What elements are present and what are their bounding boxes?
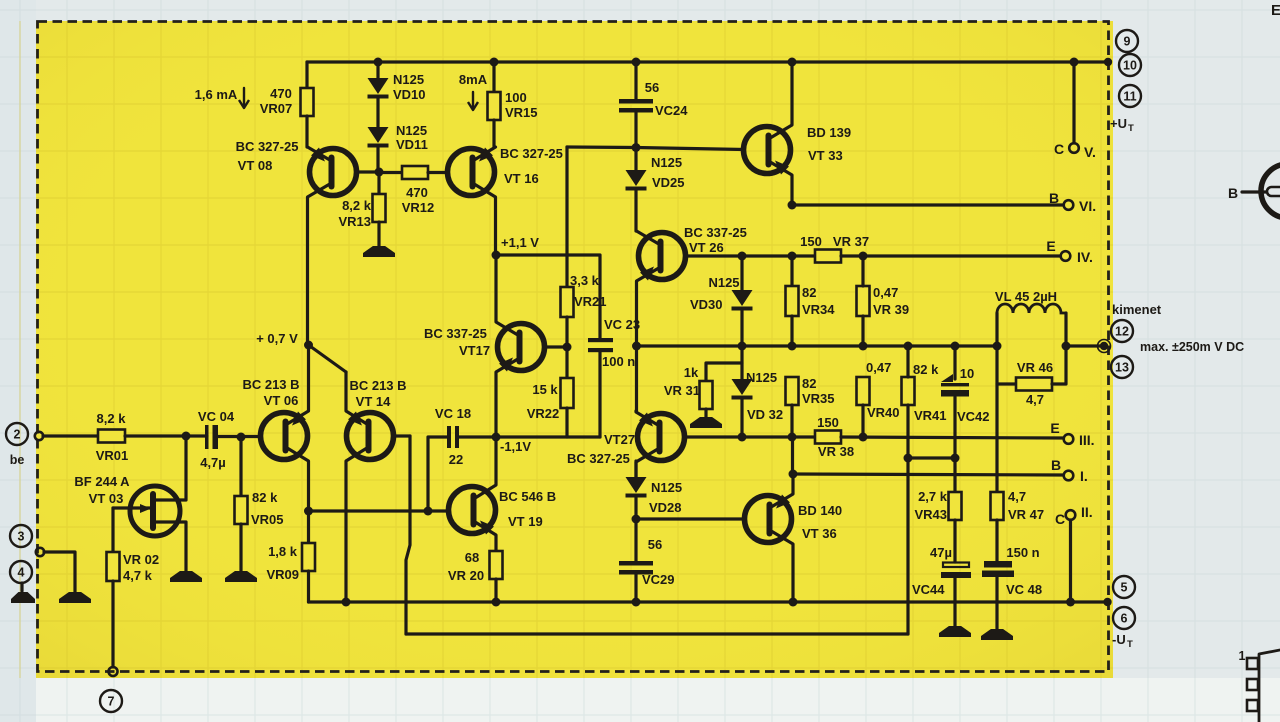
node VD28 / VT36 base — [632, 515, 641, 524]
terminal number 5 — [1113, 576, 1135, 598]
wire VR47 to VC48 — [995, 520, 998, 561]
resistor VR37 — [815, 250, 841, 263]
resistor VR21 — [561, 287, 574, 317]
svg-text:10: 10 — [960, 366, 974, 381]
svg-text:150: 150 — [800, 234, 822, 249]
dashed border of highlighted block — [38, 22, 1109, 672]
node +1,1V — [492, 251, 501, 260]
svg-text:3: 3 — [18, 530, 25, 544]
capacitor VC42 — [941, 383, 969, 386]
wire VR15 to VT16 emitter — [492, 120, 495, 147]
wire input to VR01 — [43, 434, 98, 437]
svg-text:VC 18: VC 18 — [435, 406, 471, 421]
svg-text:4,7µ: 4,7µ — [200, 455, 226, 470]
capacitor VC44 electrolytic — [943, 563, 969, 568]
wire VR35 bottom to E III line — [790, 405, 793, 437]
wire VD30 top — [740, 256, 743, 290]
svg-text:VR 39: VR 39 — [873, 302, 909, 317]
node mid rail / VR34 VR35 — [788, 342, 797, 351]
wire VR31 to ground — [704, 409, 707, 417]
wire rail to VC24 — [634, 62, 637, 99]
svg-text:BC 213 B: BC 213 B — [242, 377, 299, 392]
node bottom rail / VR20 — [492, 598, 501, 607]
capacitor VC29 — [619, 561, 653, 566]
wire feedback VT14 base down — [406, 436, 410, 634]
resistor VR41 — [902, 377, 915, 405]
wire VC04 node to VR05 — [239, 437, 242, 496]
svg-text:1k: 1k — [684, 365, 699, 380]
resistor VR09 — [302, 543, 315, 571]
wire bottom rail — [309, 600, 1108, 603]
wire VC48 to ground — [995, 577, 998, 629]
svg-text:VC 04: VC 04 — [198, 409, 235, 424]
wire base node to VR13 — [377, 172, 380, 194]
terminal circle C V. — [1069, 143, 1079, 153]
wire VR41 top — [906, 346, 909, 377]
node VC18 drop on VT19 base line — [424, 507, 433, 516]
svg-text:VI.: VI. — [1079, 198, 1096, 214]
ground below VC44 — [939, 626, 971, 637]
wire VC42 top — [953, 346, 956, 379]
svg-text:E: E — [1046, 238, 1055, 254]
wire VR01 to VC04 — [125, 434, 207, 437]
svg-text:VR 20: VR 20 — [448, 568, 484, 583]
svg-text:15 k: 15 k — [532, 382, 558, 397]
node bottom rail / VC29 — [632, 598, 641, 607]
node VD25 top / VT33 base line — [632, 143, 641, 152]
wire feedback bottom run — [406, 632, 908, 635]
svg-text:22: 22 — [449, 452, 463, 467]
wire VR22 top — [565, 347, 568, 378]
svg-text:BD 140: BD 140 — [798, 503, 842, 518]
wire base node to VR12 — [379, 171, 402, 174]
svg-text:B: B — [1049, 190, 1059, 206]
transistor VT03 BF 244 A JFET — [130, 486, 180, 536]
wire rail to VR15 — [492, 62, 495, 92]
wire VT27 collector to VD28 — [634, 461, 637, 477]
resistor VR35 — [786, 377, 799, 405]
wire VC44 to ground — [953, 578, 956, 626]
leads VT26 — [637, 231, 661, 245]
svg-text:VR07: VR07 — [260, 101, 293, 116]
node output right — [1062, 342, 1071, 351]
node VT36 emitter / B I. line — [789, 470, 798, 479]
svg-text:VR 31: VR 31 — [664, 383, 700, 398]
svg-text:VD28: VD28 — [649, 500, 682, 515]
svg-text:56: 56 — [645, 80, 659, 95]
terminal number 6 — [1113, 607, 1135, 629]
terminal number 13 — [1111, 356, 1133, 378]
svg-text:C: C — [1055, 511, 1065, 527]
wire +1,1V to VC23 — [496, 255, 600, 338]
svg-text:B: B — [1051, 457, 1061, 473]
svg-text:3,3 k: 3,3 k — [570, 273, 600, 288]
resistor VR40 — [857, 377, 870, 405]
resistor VR15 — [488, 92, 501, 120]
legend transistor partial — [1261, 164, 1280, 218]
svg-text:8,2 k: 8,2 k — [97, 411, 127, 426]
terminal number 7 — [100, 690, 122, 712]
wire VR07 to VT08 emitter — [305, 116, 308, 147]
wire VR22 bottom to -1,1V line — [565, 408, 568, 437]
terminal number 10 — [1119, 54, 1141, 76]
wire VC42 bottom to bridge — [953, 397, 956, 458]
svg-text:-1,1V: -1,1V — [500, 439, 531, 454]
svg-text:VR22: VR22 — [527, 406, 560, 421]
wire VR37 to VR39 node — [841, 254, 863, 257]
wire VD25 to VT26 emitter — [634, 190, 637, 231]
svg-text:BF 244 A: BF 244 A — [74, 474, 130, 489]
svg-text:BC 337-25: BC 337-25 — [424, 326, 487, 341]
wire VC18 left — [428, 437, 447, 511]
resistor VR13 — [373, 194, 386, 222]
wire terminal 4 stub — [20, 583, 23, 591]
svg-text:VR35: VR35 — [802, 391, 835, 406]
svg-text:VR 47: VR 47 — [1008, 507, 1044, 522]
wire feedback up to bridge — [906, 458, 909, 634]
wire VR31 top — [706, 363, 742, 381]
ground below VR05 — [225, 571, 257, 582]
svg-text:VT 14: VT 14 — [356, 394, 391, 409]
svg-text:7: 7 — [108, 695, 115, 709]
svg-text:BC 327-25: BC 327-25 — [500, 146, 563, 161]
wire B legend lead — [1242, 190, 1266, 193]
svg-text:VR05: VR05 — [251, 512, 284, 527]
resistor VR12 — [402, 166, 428, 179]
wire VT03 source — [153, 522, 186, 571]
capacitor VC42 polarity mark — [941, 374, 953, 382]
resistor VR43 — [949, 492, 962, 520]
svg-text:VT 08: VT 08 — [238, 158, 273, 173]
wire VD25 node to VR21 top — [567, 145, 636, 149]
svg-text:10: 10 — [1123, 59, 1137, 73]
terminal input circle — [35, 432, 43, 440]
svg-text:B: B — [1228, 185, 1238, 201]
svg-text:1: 1 — [1239, 649, 1246, 663]
node mid rail / VC42 — [951, 342, 960, 351]
svg-text:III.: III. — [1079, 432, 1095, 448]
svg-text:BC 327-25: BC 327-25 — [567, 451, 630, 466]
svg-text:N125: N125 — [708, 275, 739, 290]
svg-text:VR 46: VR 46 — [1017, 360, 1053, 375]
svg-text:BC 546 B: BC 546 B — [499, 489, 556, 504]
svg-text:E: E — [1271, 2, 1280, 19]
svg-text:82: 82 — [802, 376, 816, 391]
node VT17 base / VR21 VR22 — [563, 343, 572, 352]
svg-text:BC 327-25: BC 327-25 — [236, 139, 299, 154]
wire top rail to VR07 — [305, 62, 308, 88]
node mid rail / VR41 — [904, 342, 913, 351]
node mid rail / VT26-VT27 emitters — [632, 342, 641, 351]
svg-text:VR01: VR01 — [96, 448, 129, 463]
wire VR39 bottom — [861, 316, 864, 346]
wire VT14 base — [393, 434, 410, 437]
ground below VR31 — [690, 417, 722, 428]
svg-text:be: be — [10, 453, 25, 467]
diode VD30 — [732, 290, 753, 306]
node bottom rail / C II. — [1066, 598, 1075, 607]
wire VR21 bottom — [565, 317, 568, 347]
svg-text:VR41: VR41 — [914, 408, 947, 423]
svg-text:VD10: VD10 — [393, 87, 426, 102]
svg-text:2: 2 — [14, 428, 21, 442]
svg-text:4,7: 4,7 — [1026, 392, 1044, 407]
transistor VT08 BC 327-25 — [310, 149, 357, 196]
node VT06 collector / VT19 base line — [304, 507, 313, 516]
node VT26 base / VD30 — [738, 252, 747, 261]
svg-text:kimenet: kimenet — [1112, 302, 1162, 317]
svg-text:8mA: 8mA — [459, 72, 488, 87]
wire VR12 to VT16 base — [428, 171, 447, 174]
svg-text:E: E — [1050, 420, 1059, 436]
wire VD30 to mid rail — [740, 310, 743, 346]
terminal output endpoint — [1100, 342, 1108, 350]
terminal number 2 — [6, 423, 28, 445]
svg-text:VD11: VD11 — [396, 137, 428, 152]
svg-text:VC44: VC44 — [912, 582, 945, 597]
wire output mid rail — [637, 344, 998, 347]
svg-text:6: 6 — [1121, 612, 1128, 626]
svg-text:VC29: VC29 — [642, 572, 675, 587]
svg-text:VD 32: VD 32 — [747, 407, 783, 422]
ground of terminal 3 — [59, 592, 91, 603]
transistor VT27 BC 327-25 — [638, 414, 685, 461]
svg-text:VD30: VD30 — [690, 297, 723, 312]
wire bridge to VR43 — [953, 458, 956, 492]
diode VD10 — [368, 78, 389, 94]
resistor VR39 — [857, 286, 870, 316]
node top rail / VC24 — [632, 58, 641, 67]
node VC04 / VR05 — [237, 433, 246, 442]
svg-text:N125: N125 — [746, 370, 777, 385]
wire VT19 base line — [309, 509, 449, 512]
wire VT17 base — [544, 345, 567, 348]
transistor VT19 BC 546 B — [449, 487, 496, 534]
transistor VT33 BD 139 — [744, 127, 791, 174]
wire VC23 to -1,1V line — [598, 352, 601, 437]
wire B VI. line — [792, 203, 1063, 206]
wire VR46 corner to VR47 — [995, 384, 998, 492]
wire VR13 to ground — [377, 222, 380, 246]
svg-text:-U: -U — [1112, 632, 1126, 647]
capacitor VC24 — [619, 99, 653, 104]
wire to E IV terminal — [863, 254, 1060, 257]
node bottom rail border endpoint — [1103, 598, 1111, 606]
ground below VR13 — [363, 246, 395, 257]
resistor VR01 — [98, 430, 125, 443]
diode VD32 — [732, 379, 753, 395]
wire B I. line — [793, 474, 1063, 475]
svg-text:+1,1 V: +1,1 V — [501, 235, 539, 250]
wire VR39 top — [861, 256, 864, 286]
svg-text:VR43: VR43 — [914, 507, 947, 522]
wire VD25 node to VT33 base — [636, 148, 744, 150]
wire VD11 to base node — [376, 147, 379, 172]
terminal circle B I. — [1064, 471, 1074, 481]
wire VD30 node to VR37 — [742, 254, 815, 257]
svg-text:8,2 k: 8,2 k — [342, 198, 372, 213]
terminal number 11 — [1119, 85, 1141, 107]
svg-text:IV.: IV. — [1077, 249, 1093, 265]
node VT27 base / VD32 — [738, 433, 747, 442]
svg-text:56: 56 — [648, 537, 662, 552]
terminal circle 3 — [36, 548, 44, 556]
node top rail border endpoint — [1104, 58, 1112, 66]
wire C V. drop — [1072, 62, 1075, 143]
capacitor VC48 — [984, 561, 1012, 568]
wire VC04 to VT06 base — [218, 435, 260, 438]
resistor VR02 — [107, 552, 120, 581]
svg-text:82 k: 82 k — [913, 362, 939, 377]
wire VR02 to border — [111, 581, 114, 667]
wire terminal 3 to ground — [44, 552, 75, 592]
svg-text:100: 100 — [505, 90, 527, 105]
terminal number 3 — [10, 525, 32, 547]
terminal number 12 — [1111, 320, 1133, 342]
node VR39 top / E IV line — [859, 252, 868, 261]
wire VR35-VT36 link — [791, 437, 794, 474]
node -1,1V — [492, 433, 501, 442]
node top rail / C V. drop — [1070, 58, 1079, 67]
wire VR09 to bottom rail — [307, 571, 310, 602]
svg-text:VT 19: VT 19 — [508, 514, 543, 529]
svg-text:470: 470 — [406, 185, 428, 200]
svg-text:VC 23: VC 23 — [604, 317, 640, 332]
resistor VR20 — [490, 551, 503, 579]
wire to output terminal — [1066, 344, 1101, 347]
svg-text:VC 48: VC 48 — [1006, 582, 1042, 597]
resistor VR34 — [786, 286, 799, 316]
svg-text:12: 12 — [1115, 325, 1129, 339]
svg-text:1,6 mA: 1,6 mA — [195, 87, 238, 102]
leads VT08 — [308, 147, 332, 161]
arrow 1,6 mA current — [243, 88, 245, 106]
diode VD25 — [626, 170, 647, 186]
ground of terminal 4 — [11, 592, 35, 603]
leads VT06 — [286, 345, 309, 425]
svg-text:VR 02: VR 02 — [123, 552, 159, 567]
svg-text:0,47: 0,47 — [866, 360, 891, 375]
wire mid rail to VD32 — [740, 346, 743, 379]
svg-text:150: 150 — [817, 415, 839, 430]
diode VD28 — [626, 477, 647, 493]
wire VR05 to ground — [239, 524, 242, 571]
wire VC24 to node — [634, 112, 637, 147]
leads VT36 — [770, 474, 794, 508]
yellow highlight area — [36, 21, 1113, 678]
node VR34 top — [788, 252, 797, 261]
svg-text:+ 0,7 V: + 0,7 V — [256, 331, 298, 346]
capacitor VC23 — [588, 338, 613, 342]
svg-text:BC 337-25: BC 337-25 — [684, 225, 747, 240]
transistor VT06 BC 213 B — [261, 413, 308, 460]
wire +Ut top rail — [307, 60, 1108, 63]
node feedback bridge right — [951, 454, 960, 463]
svg-text:VR21: VR21 — [574, 294, 607, 309]
wire VT03 drain — [153, 436, 186, 500]
svg-text:13: 13 — [1115, 361, 1129, 375]
node bottom rail / VT36 collector — [789, 598, 798, 607]
svg-text:VT 33: VT 33 — [808, 148, 843, 163]
resistor VR38 — [815, 431, 841, 444]
wire +0,7V diagonal to VT14 emitter — [309, 345, 347, 372]
node mid rail / VD30 — [738, 342, 747, 351]
wire VT03 gate — [113, 506, 150, 509]
svg-text:VR34: VR34 — [802, 302, 835, 317]
svg-text:N125: N125 — [396, 123, 427, 138]
node VR35 / E III line — [788, 433, 797, 442]
terminal number 9 — [1116, 30, 1138, 52]
wire VD32 to VT27 base line — [740, 399, 743, 437]
node top rail / VD10 — [374, 58, 383, 67]
wire VR41 bottom to bridge — [906, 405, 909, 458]
leads VT16 — [473, 147, 496, 161]
transistor VT16 BC 327-25 — [448, 149, 495, 196]
svg-text:9: 9 — [1124, 35, 1131, 49]
svg-text:N125: N125 — [651, 155, 682, 170]
terminal circle at border 7 — [109, 667, 118, 676]
svg-text:VR 37: VR 37 — [833, 234, 869, 249]
inductor VL45 — [995, 313, 998, 346]
terminal circle C II. — [1066, 510, 1076, 520]
svg-text:VT 16: VT 16 — [504, 171, 539, 186]
svg-text:C: C — [1054, 141, 1064, 157]
IC package corner bottom right — [1259, 650, 1280, 722]
capacitor VC04 — [205, 425, 209, 449]
wire VT27 base line — [684, 435, 742, 438]
svg-text:N125: N125 — [393, 72, 424, 87]
wire -1,1V line — [496, 435, 600, 438]
wire VD28 node to VC29 — [634, 519, 637, 561]
svg-text:I.: I. — [1080, 468, 1088, 484]
svg-text:T: T — [1127, 639, 1133, 650]
ground below VC48 — [981, 629, 1013, 640]
wire VR38 to E III terminal — [841, 437, 1063, 438]
resistor VR31 — [700, 381, 713, 409]
svg-text:T: T — [1128, 123, 1134, 134]
svg-text:max. ±250m V DC: max. ±250m V DC — [1140, 340, 1244, 354]
leads VT27 — [636, 411, 660, 426]
svg-text:VL 45 2µH: VL 45 2µH — [995, 289, 1057, 304]
ground below VT03 — [170, 571, 202, 582]
svg-text:68: 68 — [465, 550, 479, 565]
svg-text:VT27: VT27 — [604, 432, 635, 447]
wire VC29 to bottom rail — [634, 574, 637, 602]
wire C II. to bottom rail — [1069, 520, 1072, 602]
node VR40 / E III line — [859, 433, 868, 442]
wire VC18 right — [459, 435, 496, 438]
svg-text:VT 26: VT 26 — [689, 240, 724, 255]
node VT08 base / VR12 / VR13 — [375, 168, 384, 177]
svg-text:0,47: 0,47 — [873, 285, 898, 300]
wire VT08 base — [356, 170, 379, 173]
svg-text:BD 139: BD 139 — [807, 125, 851, 140]
wire VR34 top — [790, 256, 793, 286]
node VT14 collector / bottom rail — [342, 598, 351, 607]
svg-text:150 n: 150 n — [1006, 545, 1039, 560]
svg-text:4,7 k: 4,7 k — [123, 568, 153, 583]
node top rail / VR15 — [490, 58, 499, 67]
wire VR20 to bottom rail — [494, 579, 497, 602]
node top rail / VT33 collector — [788, 58, 797, 67]
svg-text:2,7 k: 2,7 k — [918, 489, 948, 504]
diode VD11 — [368, 127, 389, 143]
svg-text:47µ: 47µ — [930, 545, 952, 560]
svg-text:82: 82 — [802, 285, 816, 300]
wire VR40 bottom — [861, 405, 864, 437]
svg-text:VD25: VD25 — [652, 175, 685, 190]
terminal circle E IV. — [1061, 251, 1071, 261]
